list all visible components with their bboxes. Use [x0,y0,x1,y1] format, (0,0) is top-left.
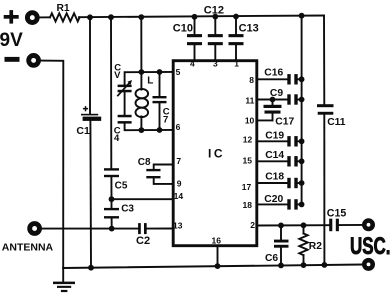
svg-text:C9: C9 [270,88,283,99]
capacitor C7 plates [153,96,167,98]
svg-text:4: 4 [114,133,120,144]
svg-text:R1: R1 [57,3,70,14]
svg-text:C19: C19 [265,130,284,141]
svg-text:3: 3 [213,59,218,69]
terminal: battery - [29,56,39,66]
svg-text:4: 4 [190,59,195,69]
capacitor CV plates [118,85,132,88]
svg-text:9V: 9V [0,30,23,51]
svg-text:7: 7 [176,156,181,166]
svg-text:C3: C3 [121,203,134,214]
capacitor C10 plates [187,34,202,37]
wire: tank circuit top rail to IC pin 5 [125,72,173,85]
wire: C2 to IC pin 13 [147,228,173,230]
wire: IC pin 2 output line to C15 [257,224,329,226]
wire: antenna line to C2 [42,228,138,230]
svg-text:6: 6 [176,122,181,132]
resistor R2 [299,225,307,265]
wire: C7 branch top [159,72,161,96]
wire: C17 branch pin11 junction to pin 10 [257,100,273,121]
svg-text:C18: C18 [265,172,284,183]
junction: antenna line / C3 [109,226,115,232]
terminal: USC top [364,221,372,229]
svg-text:13: 13 [173,220,183,230]
svg-text:L: L [147,75,153,86]
capacitor C11 plates [317,104,334,107]
svg-text:C15: C15 [327,207,347,219]
capacitor C20 plates [287,199,290,209]
svg-text:C17: C17 [275,117,294,128]
svg-text:C5: C5 [115,180,128,191]
junction: bus / C16 [299,76,305,82]
svg-text:ANTENNA: ANTENNA [2,241,54,253]
wire: C15 to USC terminal [339,224,362,226]
junction: top rail / C13 [233,14,239,20]
wire: CV to C4 link [124,92,126,115]
svg-text:2: 2 [250,220,255,230]
wire: C11 branch from top rail [323,16,325,105]
wire: C8 loop IC pin 7 [154,165,173,170]
capacitor C18 plates [287,178,290,188]
ground symbol bars [53,282,75,293]
svg-text:C2: C2 [136,235,150,247]
svg-text:C11: C11 [327,117,346,128]
svg-text:C8: C8 [138,157,151,168]
capacitor C9 plates [287,94,290,104]
svg-text:C10: C10 [173,23,193,35]
junction: pin11 wire / C17 [270,97,276,103]
svg-text:12: 12 [243,134,253,144]
wire: IC pin 12 to C19 [257,140,302,142]
junction: top rail / C1 dropper [87,14,93,20]
wire: dropper top rail to C5 [110,17,112,168]
inductor L [136,72,149,130]
junction: ground rail / R2 [301,262,307,268]
svg-text:11: 11 [245,95,254,105]
svg-text:IC: IC [208,146,225,160]
capacitor C2 plates [138,223,141,234]
junction: bus / C14 [299,158,305,164]
junction: bus / C20 [299,202,305,208]
svg-text:C13: C13 [239,23,259,35]
svg-text:R2: R2 [309,241,322,252]
svg-text:5: 5 [176,67,181,77]
capacitor C3 plates [104,208,119,210]
wire: ground rail [63,265,362,269]
junction: output line / R2 [301,222,307,228]
junction: output line / C6 [278,223,284,229]
junction: bus / C18 [299,180,305,186]
junction: ground rail / C1 [88,265,94,271]
wire: C3 bottom to antenna line [111,218,113,228]
variable capacitor CV arrow [117,80,132,96]
junction: ground rail / C11 [322,262,328,268]
svg-text:18: 18 [243,200,253,210]
wire: C11 bottom to ground rail [323,115,325,265]
wire: IC pin 8 to C16 [257,78,302,80]
junction: ground rail / pin 16 [215,263,221,269]
svg-text:C6: C6 [265,253,278,264]
capacitor C15 plates [329,219,332,232]
svg-text:C12: C12 [204,5,224,17]
wire: minus terminal to ground dropper [41,61,63,268]
capacitor C14 plates [287,156,290,166]
wire: IC pin 17 to C18 [257,182,302,184]
svg-text:9: 9 [177,179,182,189]
ground symbol [62,268,64,282]
terminal: USC bottom [364,260,372,268]
junction: tank bottom rail / L [139,127,145,133]
terminal: battery + [27,13,37,23]
svg-text:C1: C1 [76,125,90,137]
junction: top rail / C12 [212,14,218,20]
svg-text:USC.: USC. [350,233,390,260]
wire: C5 to junction pin14 [110,177,112,199]
capacitor C4 plates [118,115,132,118]
wire: + terminal to R1 [39,16,51,18]
junction: top rail / tank dropper [138,14,144,20]
svg-text:1: 1 [234,59,239,69]
junction: bus / C9 [299,97,305,103]
junction: C5-C3 node to pin 14 [109,196,115,202]
capacitor C6 plates [274,240,289,243]
junction: tank top rail / L [139,69,145,75]
svg-text:C20: C20 [264,194,283,205]
capacitor C8 plates [146,169,160,171]
svg-text:14: 14 [174,191,184,201]
wire: dropper x90 top rail to C1 [89,17,91,114]
wire: dropper top rail to tank rail [140,17,142,72]
wire: IC pin 15 to C14 [257,160,302,162]
junction: ground rail / C6 [278,263,284,269]
svg-text:7: 7 [163,115,168,126]
wire: tank circuit bottom rail to IC pin 6 [125,123,173,130]
wire: C8 loop to IC pin 9 [154,178,173,184]
capacitor C19 plates [287,136,290,146]
svg-text:C16: C16 [264,68,283,79]
svg-text:C14: C14 [265,150,284,161]
wire: IC pin 18 to C20 [257,203,302,205]
svg-text:15: 15 [243,155,253,165]
terminal: antenna [30,224,40,234]
junction: tank top rail / C7 [157,69,163,75]
wire: top +9V rail from R1 to C11 corner [79,16,324,18]
capacitor C13 plates [229,34,244,37]
junction: tank bottom rail / C7 [157,127,163,133]
wire: C1 bottom to ground rail [89,121,92,268]
junction: bus / C19 [299,138,305,144]
wire: junction to IC pin 14 [112,198,173,200]
wire: C10 branch (IC pin 4) [194,17,196,60]
battery - symbol [5,57,20,62]
wire: C7 branch bottom [159,103,161,130]
resistor R1 [50,13,80,21]
wire: C12 branch (IC pin 3) [214,17,216,61]
capacitor C12 plates [208,34,223,37]
wire: C6 branch [280,225,282,265]
wire: right bypass bus [301,16,303,205]
wire: IC pin 16 to ground rail [217,246,219,266]
battery + symbol [4,10,19,24]
junction: top rail / bypass bus [299,13,305,19]
capacitor C5 plates [104,168,119,170]
svg-text:10: 10 [245,115,255,125]
svg-text:17: 17 [242,182,252,192]
wire: IC pin 11 to C9 [257,99,302,101]
capacitor C1 (electrolytic, + mark) [81,106,101,121]
capacitor C17 plates [264,105,282,108]
wire: C13 branch (IC pin 1) [235,17,237,61]
svg-text:V: V [114,70,121,81]
wire: junction to C3 [111,199,113,208]
junction: top rail / C10 [192,14,198,20]
junction: top rail / C5 dropper [108,14,114,20]
svg-text:16: 16 [212,236,222,246]
capacitor C16 plates [287,74,290,84]
svg-text:8: 8 [249,75,254,85]
op IC U1 body [173,61,257,246]
